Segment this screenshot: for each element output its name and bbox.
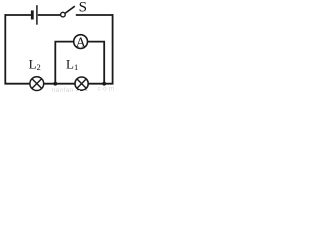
lamp L1 cross	[77, 79, 86, 88]
svg-text:com: com	[98, 86, 117, 93]
wire bottom horizontal	[5, 83, 114, 85]
svg-text:L1: L1	[66, 57, 78, 73]
battery cell: long thin positive plate	[36, 5, 38, 25]
wire ammeter right lead	[87, 41, 105, 43]
switch S lever blade	[65, 6, 75, 13]
lamp L1 circle	[75, 77, 88, 90]
junction node right	[102, 82, 106, 86]
junction node left	[53, 82, 57, 86]
wire inner-left vertical	[54, 42, 56, 84]
switch S pivot circle	[61, 12, 66, 17]
lamp L2 circle	[30, 77, 44, 91]
wire inner-right vertical	[103, 42, 105, 84]
lamp L2 cross	[32, 79, 41, 88]
ammeter U1 circle	[74, 35, 88, 49]
watermark dashes under lamp L1	[76, 90, 88, 92]
battery cell: short thick negative plate	[31, 10, 34, 19]
wire battery to switch	[38, 14, 61, 16]
wire ammeter left lead	[55, 41, 74, 43]
wire right vertical	[112, 14, 114, 84]
svg-text:S: S	[79, 0, 87, 16]
svg-text:nanfan: nanfan	[52, 87, 74, 93]
wire left vertical	[4, 14, 6, 84]
svg-text:L2: L2	[29, 56, 41, 72]
wire top-left segment	[5, 14, 32, 16]
wire top-right segment	[76, 14, 114, 16]
svg-text:A: A	[76, 34, 86, 49]
